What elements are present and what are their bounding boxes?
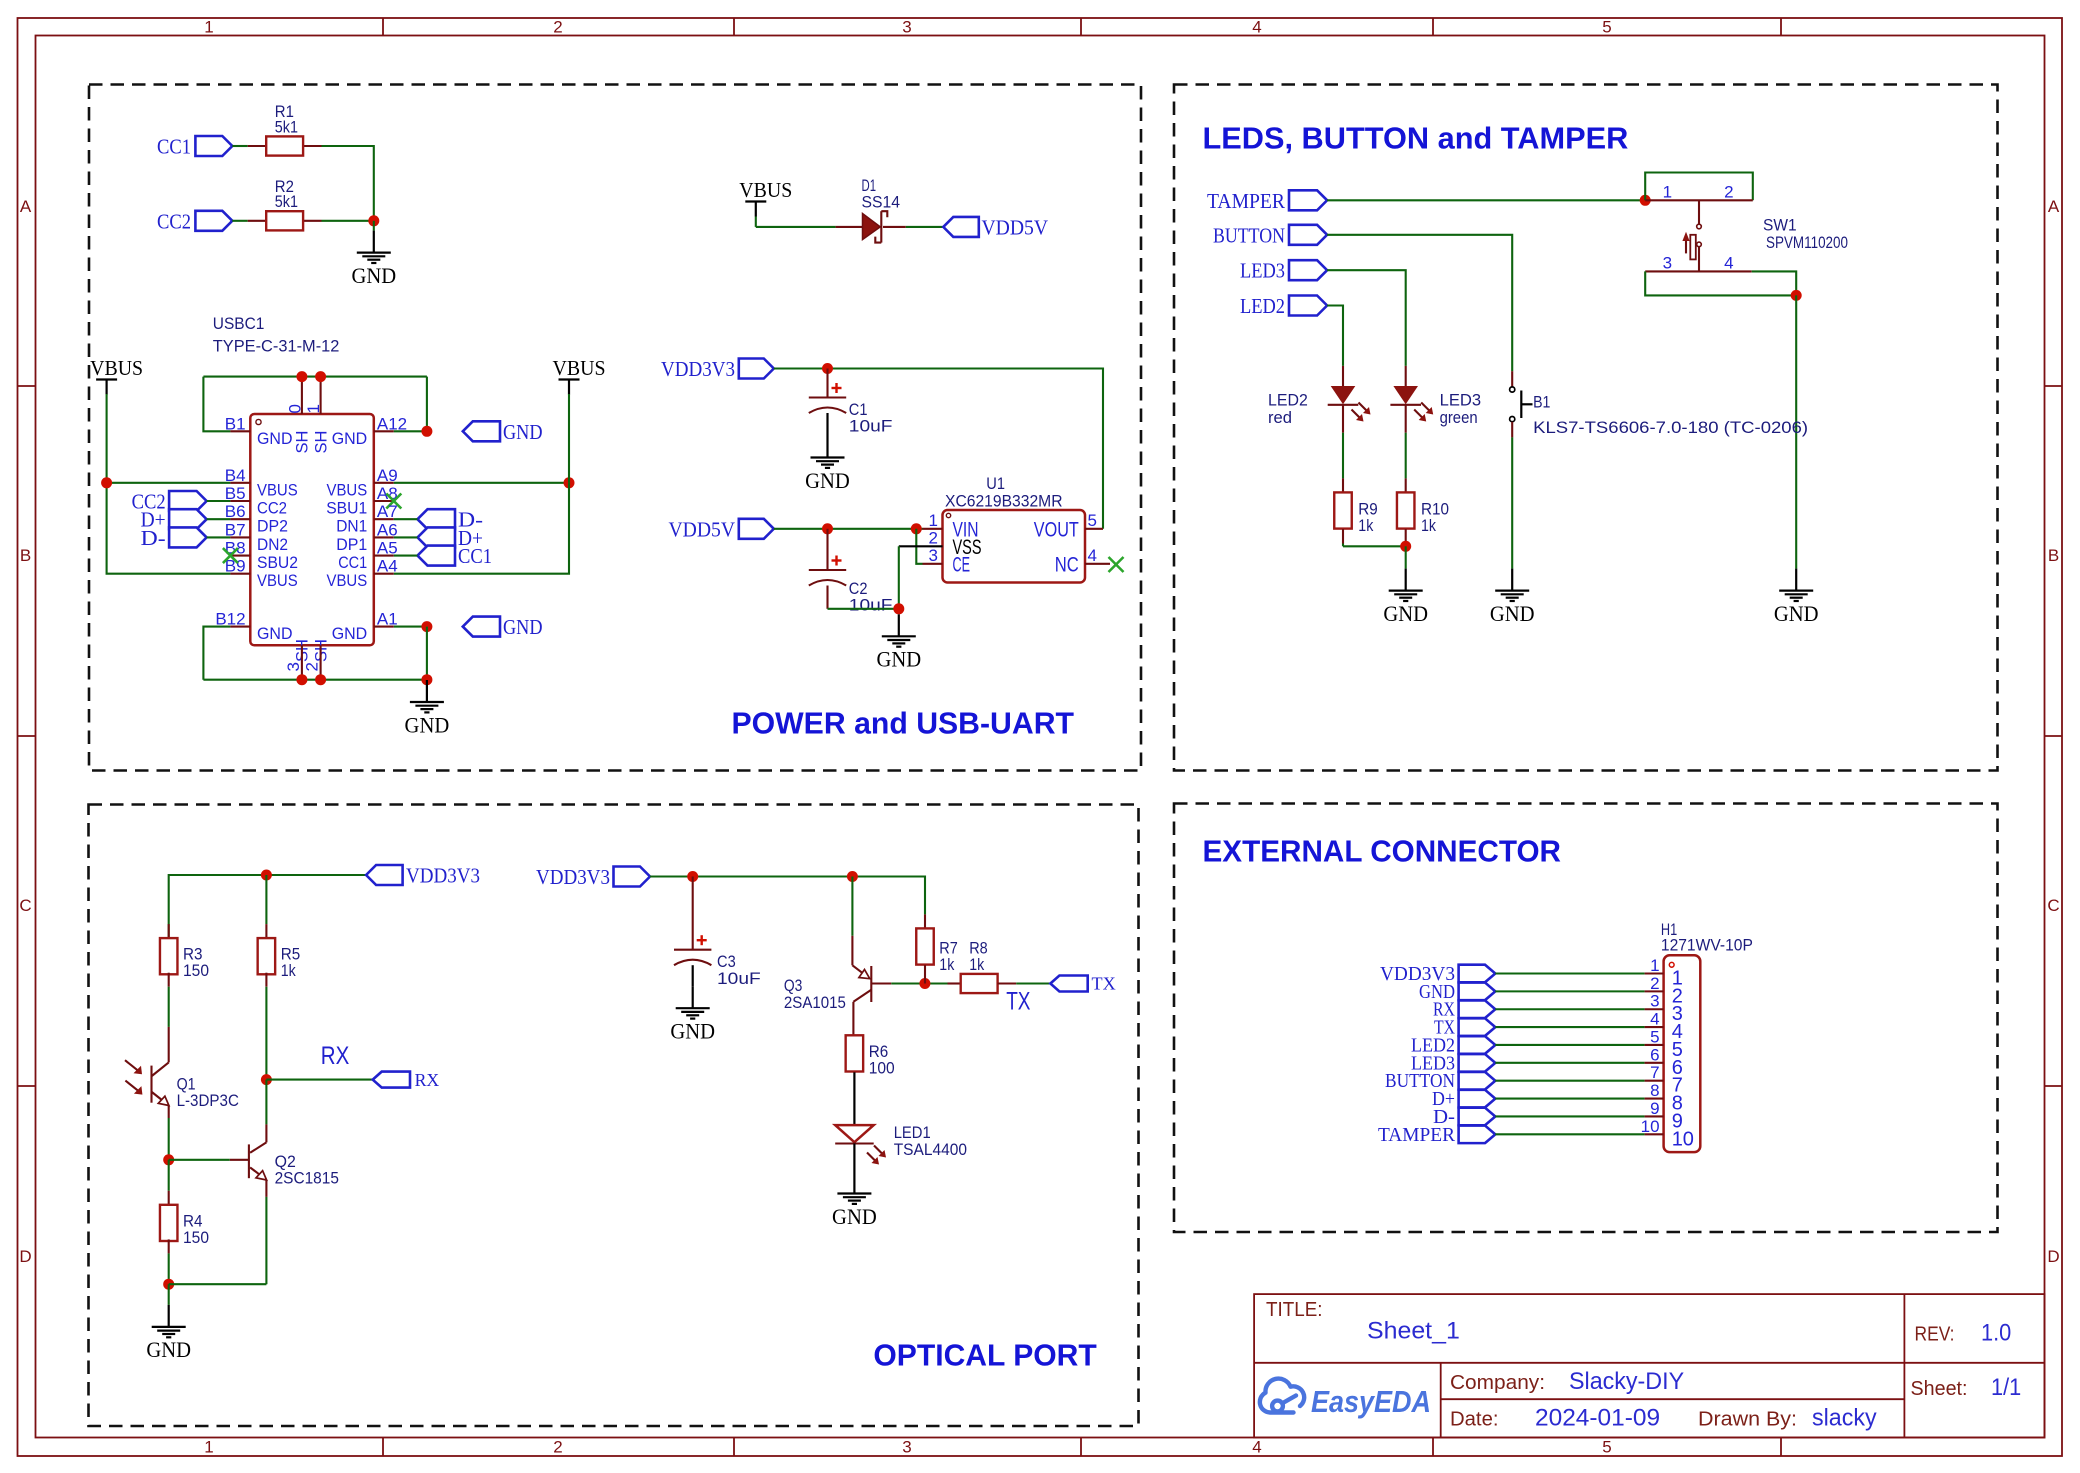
svg-text:DP1: DP1 (336, 536, 367, 554)
svg-text:3: 3 (902, 18, 911, 37)
svg-text:BUTTON: BUTTON (1213, 223, 1285, 247)
svg-text:TYPE-C-31-M-12: TYPE-C-31-M-12 (213, 337, 340, 356)
svg-text:Sheet_1: Sheet_1 (1367, 1318, 1460, 1345)
svg-text:4: 4 (1724, 254, 1733, 273)
wire VBUS right to A4 (394, 483, 569, 574)
svg-text:3: 3 (284, 662, 303, 671)
pin A12 (374, 430, 394, 432)
svg-text:GND: GND (832, 1204, 877, 1229)
wire GND to H1 pin 2 (1495, 990, 1644, 992)
svg-text:CC2: CC2 (157, 209, 191, 233)
wire to CE (916, 529, 922, 564)
junction TAMPER/SW1 (1640, 195, 1651, 206)
ground GND (C1) (826, 436, 828, 458)
pin 1 (H1) (1645, 972, 1664, 974)
pin 3 (H1) (1645, 1008, 1664, 1010)
resistor R9 1k (1342, 478, 1344, 492)
LED LED2 (1342, 366, 1344, 386)
svg-text:GND: GND (1490, 601, 1535, 626)
svg-text:Company:: Company: (1450, 1372, 1545, 1394)
wire R2 to GND node (322, 220, 374, 222)
wire D+ to pin (207, 518, 231, 520)
pin B1 (230, 430, 250, 432)
svg-text:4: 4 (1252, 1438, 1261, 1457)
svg-text:2SC1815: 2SC1815 (275, 1169, 339, 1188)
ground GND (LED1) (853, 1172, 855, 1194)
svg-text:SPVM110200: SPVM110200 (1766, 233, 1848, 252)
wire VDD3V3 rail (optical right) (650, 877, 925, 915)
svg-text:10uF: 10uF (849, 595, 893, 614)
svg-text:4: 4 (1650, 1010, 1659, 1029)
wire VDD3V3 to H1 pin 1 (1495, 972, 1644, 974)
svg-text:RX: RX (321, 1042, 350, 1070)
svg-text:A4: A4 (377, 557, 398, 576)
svg-text:GND: GND (503, 615, 543, 639)
resistor R10 1k (1405, 478, 1407, 492)
junction VBUS/B4 (101, 477, 112, 488)
junction SH2 (315, 674, 326, 685)
wire to GND (R9 R10) (1405, 546, 1407, 568)
wire VDD3V3 to VOUT (774, 369, 1103, 529)
svg-text:1: 1 (204, 1438, 213, 1457)
wire pin to port D+ (394, 536, 418, 538)
wire node to GND (373, 221, 375, 231)
svg-text:10uF: 10uF (717, 969, 761, 988)
wire R1 to GND node (322, 146, 374, 221)
wire A9 to VBUS right (394, 482, 569, 484)
wire Q2 base (169, 1159, 230, 1161)
pin 4 NC (no connect) (1085, 563, 1110, 565)
svg-text:red: red (1268, 408, 1292, 427)
pin 7 (H1) (1645, 1080, 1664, 1082)
svg-text:RX: RX (415, 1070, 440, 1090)
svg-text:1: 1 (204, 18, 213, 37)
svg-text:5: 5 (1088, 511, 1097, 530)
resistor R4 150 (168, 1160, 170, 1191)
pin 5 (H1) (1645, 1044, 1664, 1046)
svg-text:B1: B1 (1533, 392, 1550, 411)
wire VDD5V to VIN (774, 528, 923, 530)
pin 9 (H1) (1645, 1115, 1664, 1117)
svg-text:LED2: LED2 (1240, 294, 1285, 318)
svg-text:TAMPER: TAMPER (1207, 189, 1285, 213)
junction VBUS right (564, 477, 575, 488)
junction VIN/CE (911, 523, 922, 534)
svg-text:VDD3V3: VDD3V3 (406, 864, 480, 888)
junction SW1 GND (1791, 290, 1802, 301)
wire D1 to VDD5V (906, 226, 944, 228)
junction C1 (822, 363, 833, 374)
svg-text:DP2: DP2 (257, 518, 288, 536)
svg-text:GND: GND (503, 420, 543, 444)
svg-text:GND: GND (332, 625, 368, 643)
pin 8 (H1) (1645, 1098, 1664, 1100)
dashed box LEDS BUTTON TAMPER (1174, 85, 1998, 771)
frame column ticks (382, 18, 384, 36)
resistor R8 1k (948, 982, 961, 984)
wire R5 to RX node (265, 987, 267, 1080)
pin B4 (230, 482, 250, 484)
svg-text:1271WV-10P: 1271WV-10P (1661, 936, 1753, 955)
wire VSS down (898, 546, 900, 609)
svg-text:1: 1 (929, 511, 938, 530)
svg-text:10: 10 (1641, 1117, 1660, 1136)
dashed box OPTICAL PORT (89, 805, 1139, 1427)
svg-text:1.0: 1.0 (1981, 1320, 2011, 1347)
svg-text:2SA1015: 2SA1015 (784, 993, 846, 1012)
svg-text:5: 5 (1602, 1438, 1611, 1457)
pin 2 VSS (899, 545, 943, 547)
svg-text:slacky: slacky (1812, 1405, 1877, 1432)
wire LED1 to GND (853, 1144, 855, 1172)
svg-text:VSS: VSS (953, 536, 982, 559)
title block (1254, 1294, 2044, 1437)
wire CC1 to R1 (232, 145, 247, 147)
ground GND (B1) (1511, 569, 1513, 591)
svg-text:NC: NC (1055, 553, 1079, 576)
svg-text:0: 0 (285, 404, 304, 413)
port GND (A12) (463, 421, 500, 441)
svg-text:A: A (2048, 197, 2060, 216)
svg-text:2: 2 (1724, 183, 1733, 202)
svg-text:7: 7 (1650, 1063, 1659, 1082)
svg-text:3: 3 (1650, 992, 1659, 1011)
switch SW1 SPVM110200 (1645, 199, 1753, 201)
wire LED2 to H1 pin 5 (1495, 1044, 1644, 1046)
phototransistor Q1 L-3DP3C (168, 987, 170, 1027)
pushbutton B1 KLS7 (1511, 371, 1513, 387)
svg-text:VBUS: VBUS (327, 572, 368, 590)
svg-text:TITLE:: TITLE: (1266, 1299, 1323, 1321)
svg-text:VDD5V: VDD5V (982, 215, 1049, 239)
svg-text:VDD3V3: VDD3V3 (536, 865, 610, 889)
svg-text:TX: TX (1006, 988, 1031, 1016)
svg-text:EXTERNAL CONNECTOR: EXTERNAL CONNECTOR (1203, 834, 1562, 869)
svg-text:150: 150 (183, 1228, 209, 1247)
svg-text:B: B (20, 546, 31, 565)
frame row ticks (18, 385, 36, 387)
wire TAMPER to SW1 (1327, 199, 1645, 201)
resistor R3 150 (168, 924, 170, 938)
resistor R1 5k1 (248, 145, 267, 147)
svg-text:100: 100 (869, 1059, 895, 1078)
port GND (A1) (463, 617, 500, 637)
wire A1 to GND port (394, 626, 427, 628)
svg-text:B7: B7 (225, 520, 246, 539)
svg-text:3: 3 (902, 1438, 911, 1457)
svg-text:DN1: DN1 (336, 518, 367, 536)
pin 4 (H1) (1645, 1026, 1664, 1028)
svg-text:1: 1 (1663, 183, 1672, 202)
svg-text:CC1: CC1 (157, 135, 191, 159)
svg-text:1: 1 (1650, 956, 1659, 975)
wire TAMPER to H1 pin 10 (1495, 1133, 1644, 1135)
svg-text:B1: B1 (225, 414, 246, 433)
wire bottom shield bus (203, 679, 427, 681)
svg-text:C: C (2047, 896, 2059, 915)
resistor R6 100 (853, 1034, 855, 1036)
svg-text:GND: GND (1774, 601, 1819, 626)
svg-text:GND: GND (405, 712, 450, 737)
pin B7 (230, 536, 250, 538)
svg-text:SH: SH (294, 431, 312, 454)
svg-text:SS14: SS14 (862, 193, 901, 212)
wire A12 to GND port (394, 430, 427, 432)
junction C2/VSS GND (893, 603, 904, 614)
wire LED LED3 to resistor (1405, 405, 1407, 433)
svg-text:SBU1: SBU1 (326, 500, 367, 518)
svg-text:VDD5V: VDD5V (669, 517, 736, 541)
wire node to GND (168, 1284, 170, 1305)
ground GND (USBC) (426, 680, 428, 702)
wire R4 to GND node (168, 1253, 170, 1284)
pin A4 (374, 573, 394, 575)
svg-text:SW1: SW1 (1763, 216, 1797, 235)
port TX (1050, 976, 1087, 992)
svg-text:POWER and USB-UART: POWER and USB-UART (732, 706, 1075, 741)
svg-text:A: A (20, 197, 32, 216)
wire A1 down to shield bus (426, 627, 428, 680)
wire BUTTON to H1 pin 7 (1495, 1080, 1644, 1082)
junction SH1 (315, 371, 326, 382)
wire RX to H1 pin 3 (1495, 1008, 1644, 1010)
resistor R5 1k (265, 875, 267, 924)
svg-text:Slacky-DIY: Slacky-DIY (1569, 1368, 1684, 1395)
svg-text:10: 10 (1672, 1128, 1694, 1150)
pin 3 CE (923, 563, 943, 565)
svg-text:TSAL4400: TSAL4400 (894, 1140, 967, 1159)
svg-text:CC1: CC1 (338, 554, 367, 572)
svg-text:VDD3V3: VDD3V3 (661, 357, 735, 381)
diode D1 SS14 (836, 226, 863, 228)
svg-text:2: 2 (303, 662, 322, 671)
junction R9/R10 (1400, 541, 1411, 552)
svg-text:6: 6 (1650, 1045, 1659, 1064)
svg-text:TX: TX (1092, 974, 1116, 994)
pin SH3 bottom (301, 645, 303, 679)
svg-text:B5: B5 (225, 484, 246, 503)
junction bottom bus (421, 674, 432, 685)
wire VBUS to D1 (756, 226, 836, 228)
svg-text:U1: U1 (986, 474, 1005, 493)
svg-text:VBUS: VBUS (553, 356, 606, 380)
EasyEDA logo (1260, 1379, 1304, 1413)
wire Q3 base to R8 (871, 982, 891, 984)
port D- (USBC right) (418, 509, 456, 529)
pin B9 (230, 573, 250, 575)
svg-text:4: 4 (1088, 546, 1097, 565)
svg-text:3: 3 (1663, 254, 1672, 273)
wire SW1 to GND (1795, 295, 1797, 568)
svg-text:5k1: 5k1 (275, 117, 298, 136)
ground GND (optical input) (168, 1305, 170, 1327)
ground GND (R1,R2) (373, 231, 375, 253)
svg-text:XC6219B332MR: XC6219B332MR (945, 492, 1063, 511)
pin B12 (230, 626, 250, 628)
junction Q1/Q2/R4 (163, 1154, 174, 1165)
capacitor C2 10uF (826, 529, 828, 570)
pin B8 (no connect) (230, 555, 250, 557)
wire BUTTON to B1 (1327, 235, 1512, 371)
svg-text:8: 8 (1650, 1081, 1659, 1100)
junction A1 (421, 621, 432, 632)
svg-text:GND: GND (257, 625, 293, 643)
wire LED3 port to LED (1327, 270, 1406, 366)
svg-text:SH: SH (312, 431, 330, 454)
wire C2 to GND node (828, 608, 899, 610)
wire pin to port D- (394, 518, 418, 520)
pin B5 (230, 500, 250, 502)
svg-text:USBC1: USBC1 (213, 314, 265, 333)
svg-text:VBUS: VBUS (327, 481, 368, 499)
pin A5 (374, 555, 394, 557)
junction RX (261, 1074, 272, 1085)
svg-text:VBUS: VBUS (257, 572, 298, 590)
junction R7/base (919, 978, 930, 989)
pin A6 (374, 536, 394, 538)
wire shield bus down to A12 (426, 377, 428, 432)
port CC1 (USBC right) (418, 546, 456, 566)
svg-text:CC1: CC1 (458, 544, 492, 568)
ground GND (R9 R10) (1405, 569, 1407, 591)
svg-text:LED3: LED3 (1440, 391, 1482, 410)
wire LED3 to H1 pin 6 (1495, 1062, 1644, 1064)
wire Q2 emitter down (265, 1197, 267, 1284)
svg-text:5: 5 (1602, 18, 1611, 37)
svg-text:1k: 1k (1358, 516, 1373, 535)
wire R8 to TX port (1016, 982, 1050, 984)
svg-text:LEDS, BUTTON and TAMPER: LEDS, BUTTON and TAMPER (1203, 121, 1629, 156)
wire D+ to H1 pin 8 (1495, 1098, 1644, 1100)
pin A9 (374, 482, 394, 484)
svg-text:4: 4 (1252, 18, 1261, 37)
svg-text:GND: GND (332, 430, 368, 448)
svg-text:D: D (2047, 1247, 2059, 1266)
wire TX to H1 pin 4 (1495, 1026, 1644, 1028)
svg-text:GND: GND (146, 1337, 191, 1362)
wire to pin B12 (203, 627, 230, 680)
svg-text:1k: 1k (281, 961, 296, 980)
transistor Q3 2SA1015 (851, 877, 853, 936)
LED LED1 TSAL4400 (835, 1125, 874, 1142)
ground GND (C2) (898, 614, 900, 636)
svg-text:B6: B6 (225, 502, 246, 521)
svg-text:SBU2: SBU2 (257, 554, 298, 572)
wire VBUS rail to B4/B9 (107, 482, 231, 484)
svg-text:2024-01-09: 2024-01-09 (1535, 1405, 1660, 1432)
pin A8 (no connect) (374, 500, 394, 502)
port VDD5V (D1) (943, 217, 979, 237)
ground GND (C3) (692, 986, 694, 1008)
svg-text:3: 3 (929, 546, 938, 565)
svg-text:1k: 1k (1421, 516, 1436, 535)
resistor R7 1k (924, 914, 926, 928)
svg-text:GND: GND (670, 1019, 715, 1044)
svg-text:Sheet:: Sheet: (1911, 1378, 1968, 1400)
capacitor C3 10uF (692, 877, 694, 950)
wire CC2 to pin (207, 500, 231, 502)
svg-text:LED3: LED3 (1240, 259, 1285, 283)
port VDD3V3 (optical left) (366, 865, 403, 885)
pin SH0 top (301, 377, 303, 414)
svg-text:B: B (2048, 546, 2059, 565)
svg-text:9: 9 (1650, 1099, 1659, 1118)
wire SW1 pin4 to GND (1752, 271, 1797, 295)
port RX (373, 1072, 410, 1088)
wire top shield bus (203, 376, 427, 378)
svg-text:GND: GND (257, 430, 293, 448)
svg-text:GND: GND (805, 468, 850, 493)
svg-text:GND: GND (876, 647, 921, 672)
wire VBUS left rail (106, 394, 108, 483)
junction R5 rail (261, 870, 272, 881)
junction A12 (421, 426, 432, 437)
wire VDD3V3 rail (optical left) (169, 875, 366, 938)
wire B1 to GND (1511, 437, 1513, 568)
wire to pin B1 (203, 377, 230, 432)
svg-text:KLS7-TS6606-7.0-180 (TC-0206): KLS7-TS6606-7.0-180 (TC-0206) (1533, 418, 1808, 437)
svg-text:VOUT: VOUT (1034, 518, 1079, 541)
wire D- to pin (207, 536, 231, 538)
svg-text:2: 2 (1650, 974, 1659, 993)
junction SH3 (296, 674, 307, 685)
pin B6 (230, 518, 250, 520)
svg-text:EasyEDA: EasyEDA (1311, 1384, 1431, 1419)
svg-text:C: C (19, 896, 31, 915)
wire SW1 pin3 to GND (1645, 271, 1796, 295)
wire CC2 to R2 (232, 220, 247, 222)
svg-text:L-3DP3C: L-3DP3C (177, 1091, 239, 1110)
svg-text:TAMPER: TAMPER (1378, 1124, 1456, 1146)
svg-text:150: 150 (183, 961, 209, 980)
svg-text:VBUS: VBUS (739, 178, 792, 202)
wire SW1 pin1 to pin2 loop (1645, 173, 1753, 201)
svg-text:B12: B12 (215, 610, 245, 629)
svg-text:2: 2 (929, 528, 938, 547)
wire LED2 port to LED (1327, 306, 1343, 366)
wire LED LED2 to resistor (1342, 405, 1344, 433)
svg-text:2: 2 (553, 18, 562, 37)
svg-text:1: 1 (304, 404, 323, 413)
svg-text:Date:: Date: (1450, 1409, 1499, 1431)
ground GND (SW1) (1795, 569, 1797, 591)
pin SH2 bottom (320, 645, 322, 679)
svg-text:B4: B4 (225, 466, 246, 485)
svg-text:OPTICAL PORT: OPTICAL PORT (873, 1338, 1097, 1373)
capacitor C1 10uF (826, 369, 828, 398)
svg-text:1/1: 1/1 (1991, 1374, 2021, 1401)
svg-text:D: D (19, 1247, 31, 1266)
junction Q3 emitter (847, 871, 858, 882)
svg-text:1k: 1k (939, 955, 954, 974)
wire pin to port CC1 (394, 555, 418, 557)
resistor R2 5k1 (248, 220, 267, 222)
wire Q1 emitter to node (168, 1118, 170, 1160)
svg-text:D-: D- (141, 526, 166, 550)
junction C3 (687, 871, 698, 882)
dashed box POWER and USB-UART (89, 85, 1141, 771)
pin 6 (H1) (1645, 1062, 1664, 1064)
dashed box EXTERNAL CONNECTOR (1174, 804, 1998, 1233)
wire R9 to R10 gnd node (1342, 544, 1344, 547)
pin 5 VOUT (1085, 528, 1103, 530)
junction R4/Q2 emitter (163, 1279, 174, 1290)
svg-text:green: green (1440, 408, 1478, 427)
svg-text:GND: GND (351, 263, 396, 288)
pin 1 VIN (923, 528, 943, 530)
svg-text:VBUS: VBUS (257, 481, 298, 499)
svg-text:REV:: REV: (1915, 1324, 1955, 1346)
